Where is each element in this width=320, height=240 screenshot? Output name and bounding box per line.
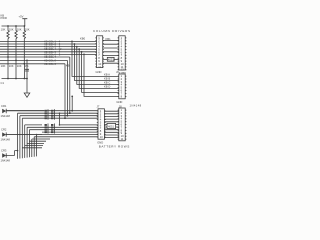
svg-text:10K: 10K: [9, 28, 14, 32]
svg-text:1N4148: 1N4148: [1, 158, 11, 162]
svg-text:KB0: KB0: [80, 37, 86, 41]
svg-text:J6: J6: [116, 70, 119, 74]
svg-text:10K: 10K: [1, 28, 6, 32]
svg-text:J7: J7: [97, 105, 100, 109]
svg-text:KB D: KB D: [104, 85, 110, 89]
svg-text:COLUMN DRIVERS: COLUMN DRIVERS: [93, 29, 131, 33]
svg-text:1N4148: 1N4148: [1, 137, 11, 141]
svg-text:GND: GND: [96, 70, 102, 74]
svg-text:CR1: CR1: [1, 104, 7, 108]
svg-text:10K: 10K: [9, 64, 14, 68]
svg-text:10K: 10K: [17, 64, 22, 68]
svg-text:10K: 10K: [25, 28, 30, 32]
svg-text:KB COL 7: KB COL 7: [44, 55, 57, 59]
svg-text:4051: 4051: [108, 58, 114, 62]
svg-text:4051: 4051: [108, 124, 114, 128]
svg-text:BATTERY ROWS: BATTERY ROWS: [99, 145, 130, 149]
svg-text:KB C: KB C: [104, 81, 110, 85]
svg-text:1N4148: 1N4148: [1, 114, 11, 118]
svg-text:11: 11: [98, 65, 101, 69]
svg-text:10: 10: [100, 135, 103, 139]
svg-text:KB COL 0: KB COL 0: [44, 62, 57, 66]
svg-text:CR3: CR3: [1, 148, 7, 152]
svg-text:CR2: CR2: [1, 128, 7, 132]
svg-text:C1: C1: [1, 81, 5, 85]
svg-text:10K: 10K: [17, 28, 22, 32]
svg-text:KB COL 8: KB COL 8: [44, 58, 57, 62]
svg-text:PWR: PWR: [1, 16, 7, 20]
svg-text:1N4148: 1N4148: [130, 103, 142, 107]
svg-text:KB A: KB A: [104, 73, 110, 77]
svg-text:10K: 10K: [1, 64, 6, 68]
svg-text:+5V: +5V: [19, 15, 24, 19]
svg-text:GND: GND: [116, 100, 122, 104]
svg-text:KB B: KB B: [104, 77, 110, 81]
svg-text:11: 11: [121, 137, 124, 141]
svg-text:KB1: KB1: [106, 37, 112, 41]
